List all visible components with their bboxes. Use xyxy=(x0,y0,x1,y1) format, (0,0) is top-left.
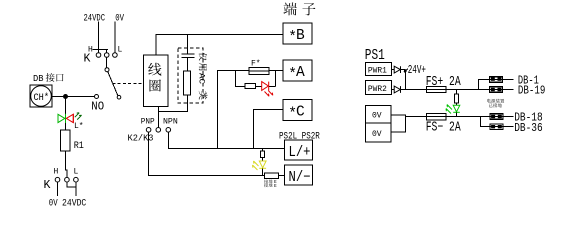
svg-text:C: C xyxy=(296,105,305,121)
svg-text:NO: NO xyxy=(91,101,104,114)
terminal box L/+ xyxy=(285,140,313,160)
rail 0V to DB fuses xyxy=(405,116,490,118)
svg-text:H: H xyxy=(54,168,59,177)
svg-text:FS− 2A: FS− 2A xyxy=(426,121,462,136)
wire PNP to bottom rail xyxy=(149,132,266,175)
svg-text:L*: L* xyxy=(74,122,84,131)
connector contact DB-36 xyxy=(503,126,514,128)
svg-text:PWR1: PWR1 xyxy=(368,67,387,76)
terminal PNP xyxy=(146,128,151,133)
wire bottom middle joins L xyxy=(67,182,76,187)
snubber note 仅用AC类 (rotated) xyxy=(199,52,207,60)
svg-text:0V: 0V xyxy=(372,112,382,121)
svg-text:K: K xyxy=(84,53,91,66)
svg-text:R1: R1 xyxy=(74,141,84,152)
switch S pivot xyxy=(105,68,109,72)
wire branch to DB-36 xyxy=(481,117,490,127)
wire snubber bottom link xyxy=(159,95,188,112)
DB channel CH* box xyxy=(30,85,52,107)
svg-text:B: B xyxy=(296,28,305,44)
wire 0V down to terminal L xyxy=(114,22,116,53)
LED green (power indicator) xyxy=(446,105,460,114)
LED red (fuse indicator) xyxy=(262,82,273,97)
switch NO fixed contact xyxy=(95,95,99,99)
wire snubber top link xyxy=(187,35,189,54)
svg-text:CH*: CH* xyxy=(34,92,50,104)
terminal coil-common xyxy=(156,128,161,133)
0V supply box xyxy=(366,106,391,142)
fuse FS- 2A xyxy=(427,114,446,120)
svg-text:0V: 0V xyxy=(49,199,58,210)
diode D2 xyxy=(392,89,395,91)
bleeder resistor xyxy=(456,90,458,95)
wire bottom L to 24VDC xyxy=(75,182,77,196)
svg-text:L: L xyxy=(118,46,123,55)
wire fuse branch down to L/+ rail xyxy=(218,71,250,149)
svg-text:DB-19: DB-19 xyxy=(518,84,546,97)
tiny note 电源装置/已接地 xyxy=(487,99,491,103)
fuse F* xyxy=(249,67,269,74)
wire D1 to D2 link xyxy=(405,70,407,90)
label 端子 xyxy=(283,2,296,15)
series resistor to N/- xyxy=(265,173,279,178)
junction node xyxy=(63,94,68,99)
terminal box N/- xyxy=(285,165,313,185)
terminal K bottom, contact H xyxy=(55,177,60,182)
svg-text:NPN: NPN xyxy=(163,118,178,127)
svg-text:DB: DB xyxy=(33,74,44,84)
power supply PWR2 box xyxy=(365,81,391,95)
wire R1 to bottom terminal xyxy=(66,151,67,177)
relay coil box 线圈 xyxy=(144,55,169,107)
terminal K top, contact L xyxy=(113,53,118,58)
terminal box *B xyxy=(283,23,312,44)
svg-text:N/−: N/− xyxy=(289,170,311,186)
svg-text:L: L xyxy=(74,168,79,177)
mechanical link (dashed) switch to coil xyxy=(113,83,144,85)
svg-text:24VDC: 24VDC xyxy=(84,14,106,25)
svg-text:E: E xyxy=(274,183,277,189)
wire junction down to R1 xyxy=(65,97,67,131)
connector contact DB-19 xyxy=(503,89,514,91)
svg-text:K2/K3: K2/K3 xyxy=(128,134,154,144)
diode D1 xyxy=(392,69,395,71)
wire coil bottom to PNP/NPN middle terminal xyxy=(158,107,160,128)
svg-text:24V+: 24V+ xyxy=(408,64,426,77)
svg-text:PS1: PS1 xyxy=(365,48,385,64)
indicator series resistor xyxy=(245,83,256,88)
power supply PWR1 box xyxy=(365,62,391,75)
svg-text:DB-36: DB-36 xyxy=(514,122,543,135)
wire coil top to rail B xyxy=(156,35,283,56)
svg-text:PNP: PNP xyxy=(141,118,155,127)
LED L* green element xyxy=(58,114,66,123)
LED L* red element xyxy=(66,114,73,123)
svg-text:A: A xyxy=(296,65,305,81)
LED L* emission arrows xyxy=(75,113,82,120)
wire bottom H to 0V xyxy=(57,182,59,196)
tiny note 接地E rows xyxy=(264,179,268,183)
connector contact DB-18 xyxy=(503,116,514,118)
svg-text:0V: 0V xyxy=(372,130,382,139)
svg-text:AC: AC xyxy=(197,73,206,84)
svg-text:0V: 0V xyxy=(115,14,124,25)
blown-fuse indicator branch xyxy=(236,71,276,87)
rail 24V to DB fuses xyxy=(401,89,490,91)
wire 0V bracket xyxy=(391,115,405,132)
svg-text:L/+: L/+ xyxy=(289,145,311,161)
svg-text:FS+ 2A: FS+ 2A xyxy=(426,75,462,90)
svg-text:K: K xyxy=(44,179,51,192)
terminal K bottom, contact L xyxy=(74,177,79,182)
switch S blade xyxy=(108,72,118,96)
net label 24V+ with arrow xyxy=(404,69,408,72)
RC snubber dashed box xyxy=(178,48,203,103)
wire NPN to L/+ rail xyxy=(169,132,285,148)
snubber capacitor xyxy=(182,53,195,55)
terminal box *A xyxy=(283,60,312,81)
terminal K bottom, contact middle xyxy=(65,177,70,182)
svg-text:24VDC: 24VDC xyxy=(62,199,86,210)
terminal K top, contact middle xyxy=(104,53,109,58)
fuse FS+ 2A xyxy=(427,86,446,92)
snubber resistor xyxy=(184,71,191,95)
resistor R1 xyxy=(61,130,70,151)
wire middle contact to switch pivot xyxy=(106,57,108,67)
wire CH* to NO contact xyxy=(52,96,94,98)
svg-text:PWR2: PWR2 xyxy=(368,85,387,94)
wire *C to L/+ rail xyxy=(254,110,284,149)
terminal NPN xyxy=(166,128,171,133)
wire branch to DB-1 xyxy=(479,80,490,90)
terminal K top, contact H xyxy=(96,53,101,58)
wire 24VDC down to terminal bar xyxy=(93,22,109,53)
terminal box *C xyxy=(283,100,312,121)
LED yellow xyxy=(253,161,267,170)
svg-text:F*: F* xyxy=(251,60,261,69)
connector contact DB-1 xyxy=(503,79,514,81)
wire L/+ rail tap down xyxy=(262,149,264,152)
sense resistor (vertical) xyxy=(261,151,265,157)
